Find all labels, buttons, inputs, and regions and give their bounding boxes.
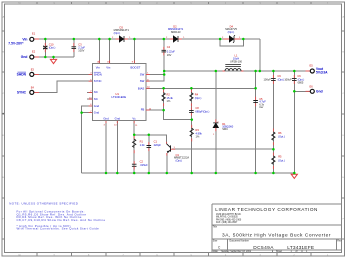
svg-text:Gnd: Gnd	[115, 116, 121, 120]
svg-text:E5: E5	[310, 64, 314, 68]
svg-text:SHDN: SHDN	[17, 72, 27, 76]
svg-text:1.0k: 1.0k	[140, 143, 146, 147]
svg-text:C4: C4	[167, 45, 171, 49]
svg-text:100uF: 100uF	[284, 77, 292, 81]
svg-text:16V: 16V	[167, 53, 172, 57]
svg-text:1630 McCARTHY BLVD.: 1630 McCARTHY BLVD.	[216, 213, 242, 216]
svg-text:Date:: Date:	[213, 250, 219, 253]
svg-text:NC: NC	[94, 97, 98, 101]
svg-text:E3: E3	[31, 67, 35, 71]
svg-text:R6: R6	[278, 131, 282, 135]
svg-text:SW: SW	[140, 73, 145, 77]
svg-text:680pF(Opt.): 680pF(Opt.)	[195, 109, 209, 113]
svg-text:Gnd: Gnd	[94, 104, 100, 108]
svg-text:MMBT2222A: MMBT2222A	[174, 156, 189, 160]
svg-text:With Thermal Constraints. See: With Thermal Constraints. See Quick Star…	[17, 227, 100, 231]
svg-text:Title: Title	[213, 226, 218, 229]
svg-text:Cer: Cer	[259, 105, 263, 109]
svg-text:SDD123: SDD123	[171, 30, 181, 34]
svg-text:(Opt.): (Opt.)	[49, 45, 56, 49]
svg-text:BOOST: BOOST	[131, 65, 141, 69]
svg-text:NC: NC	[94, 90, 98, 94]
svg-text:100V: 100V	[78, 49, 84, 53]
svg-text:FAX: (408) 434-0507: FAX: (408) 434-0507	[216, 221, 238, 224]
svg-text:0805: 0805	[298, 81, 304, 85]
svg-text:5V@3A: 5V@3A	[316, 71, 328, 75]
svg-text:220pF: 220pF	[154, 143, 162, 147]
svg-text:3A, 500kHz High Voltage Buck C: 3A, 500kHz High Voltage Buck Converter	[222, 233, 331, 239]
svg-text:Tuesday, September 03, 2002: Tuesday, September 03, 2002	[221, 250, 252, 253]
svg-text:Gnd: Gnd	[103, 116, 109, 120]
svg-text:Vin: Vin	[106, 65, 110, 69]
svg-text:Sheet: Sheet	[276, 250, 282, 253]
svg-text:0.22uF: 0.22uF	[167, 49, 175, 53]
svg-text:E1: E1	[32, 32, 36, 36]
svg-text:BIAS: BIAS	[138, 86, 145, 90]
svg-text:MMSD914T1: MMSD914T1	[114, 28, 130, 32]
svg-text:SW: SW	[140, 79, 145, 83]
svg-text:.015uF: .015uF	[140, 163, 148, 167]
svg-text:SMAZ7V5: SMAZ7V5	[225, 27, 237, 31]
svg-text:C8,C7,C9,C10,R4 Show No Ref.: C8,C7,C9,C10,R4 Show No Ref. Des. And No…	[17, 218, 106, 222]
svg-text:SYNC: SYNC	[17, 90, 27, 94]
svg-text:UP2B-100: UP2B-100	[230, 60, 243, 64]
svg-text:DC549A: DC549A	[253, 245, 274, 251]
svg-text:MILPITAS, CA 95035: MILPITAS, CA 95035	[216, 216, 238, 219]
svg-text:Gnd: Gnd	[21, 55, 28, 59]
svg-text:Gnd: Gnd	[94, 111, 100, 115]
svg-text:E6: E6	[310, 85, 314, 89]
svg-text:Document Number: Document Number	[230, 240, 250, 243]
svg-text:SHDN: SHDN	[94, 72, 102, 76]
svg-text:Gnd: Gnd	[316, 90, 323, 94]
svg-text:E4: E4	[31, 86, 35, 90]
svg-text:SYNC: SYNC	[94, 79, 102, 83]
svg-text:LT3431EFE: LT3431EFE	[287, 245, 314, 251]
svg-text:LINEAR TECHNOLOGY CORPORATION: LINEAR TECHNOLOGY CORPORATION	[215, 207, 318, 212]
svg-text:100uF: 100uF	[263, 77, 271, 81]
svg-text:E2: E2	[32, 50, 36, 54]
svg-text:(Opt.): (Opt.)	[278, 158, 285, 162]
svg-text:(Opt.): (Opt.)	[195, 96, 202, 100]
svg-text:Vin: Vin	[96, 65, 100, 69]
svg-text:R5: R5	[278, 155, 282, 159]
svg-text:U1: U1	[115, 92, 119, 96]
svg-text:NOTE: UNLESS OTHERWISE SPECIFI: NOTE: UNLESS OTHERWISE SPECIFIED	[9, 201, 78, 205]
svg-text:Size: Size	[213, 241, 218, 243]
svg-text:7.5V-28V*: 7.5V-28V*	[8, 42, 24, 46]
svg-text:(Opt.): (Opt.)	[278, 134, 285, 138]
svg-text:FB: FB	[141, 108, 145, 112]
svg-text:SMC: SMC	[222, 127, 228, 131]
svg-text:PHONE: (408) 432-1900: PHONE: (408) 432-1900	[216, 219, 242, 221]
